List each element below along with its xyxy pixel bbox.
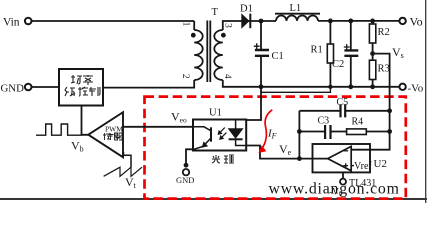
- diode D1 cathode bar: [249, 14, 251, 29]
- phototransistor emitter: [194, 138, 211, 149]
- chinese 控制器 under PWM: [103, 133, 122, 140]
- red dashed feedback box: [145, 97, 406, 199]
- wire L1 to Vo: [318, 20, 399, 22]
- svg-text:C1: C1: [272, 51, 284, 62]
- square wave symbol Vb: [36, 124, 82, 135]
- 功: [71, 75, 82, 84]
- C3 plates: [325, 125, 330, 139]
- svg-text:C5: C5: [337, 97, 349, 108]
- svg-text:R3: R3: [378, 64, 390, 75]
- opto GND wire: [186, 149, 194, 165]
- TL431 U2 box: [313, 144, 371, 172]
- U2 triangle: [328, 146, 352, 170]
- svg-text:C3: C3: [318, 116, 330, 127]
- C5 branch wires: [299, 110, 389, 112]
- C2 plates: [344, 50, 358, 55]
- svg-text:PWM: PWM: [105, 125, 123, 134]
- svg-text:-V0: -V0: [329, 188, 343, 199]
- R4 body: [347, 129, 367, 135]
- svg-text:R2: R2: [378, 27, 390, 38]
- sawtooth symbol Vt: [104, 167, 142, 176]
- svg-text:Vref: Vref: [354, 161, 372, 172]
- phototransistor emitter arrowhead: [202, 142, 207, 147]
- LED cathode lead: [236, 139, 247, 145]
- transformer secondary winding: [214, 30, 223, 80]
- terminal Vin: [25, 18, 32, 25]
- red feedback current arrow IF: [263, 110, 273, 148]
- wire primary bottom to power box: [104, 80, 195, 88]
- transformer phase dots: [191, 33, 196, 38]
- PWM controller triangle: [88, 112, 123, 157]
- opto GND terminal: [183, 169, 189, 175]
- 级: [65, 87, 75, 96]
- phototransistor collector: [193, 127, 211, 131]
- R2 body: [369, 24, 375, 43]
- svg-text:2: 2: [180, 74, 190, 79]
- svg-text:1: 1: [180, 22, 190, 27]
- R3 body: [369, 60, 375, 79]
- R1 body: [327, 44, 333, 63]
- transformer core: [207, 21, 210, 83]
- optocoupler U1 box: [193, 120, 246, 151]
- svg-text:Vin: Vin: [3, 17, 20, 29]
- terminal Vo: [399, 18, 405, 24]
- svg-text:Vo: Vo: [410, 15, 423, 29]
- resistor R2 leads: [372, 21, 374, 60]
- wire primary top corner down: [193, 21, 195, 30]
- C2 polarity plus: [344, 44, 350, 50]
- wire power box bottom to PWM: [82, 106, 89, 135]
- chinese text power stage control (drawn strokes): [65, 75, 100, 96]
- L1 core bar: [275, 13, 320, 15]
- opto light arrows: [218, 128, 226, 140]
- resistor R1 leads: [329, 21, 331, 87]
- U2 anode stub: [342, 172, 344, 178]
- U2 Vref lead: [351, 165, 354, 167]
- bottom border line: [0, 198, 427, 200]
- opto LED triangle: [229, 129, 243, 138]
- svg-text:T: T: [212, 7, 219, 18]
- resistor R3 lead: [372, 80, 374, 87]
- right border line: [425, 0, 427, 203]
- wire Veo: PWM output to optocoupler: [123, 126, 193, 128]
- wire sawtooth to PWM: [124, 152, 132, 167]
- chinese 光耦 optocoupler label: [212, 155, 234, 163]
- terminal -Vo: [399, 84, 405, 90]
- inductor L1: [276, 15, 318, 20]
- svg-text:D1: D1: [240, 4, 253, 15]
- U2 minus input marker: [344, 150, 348, 152]
- phototransistor bar: [210, 127, 212, 141]
- terminal GND: [25, 84, 32, 91]
- C3 branch wires: [299, 131, 389, 133]
- capacitor C1 leads: [260, 21, 262, 87]
- svg-text:R1: R1: [311, 45, 323, 56]
- transformer T primary winding: [194, 30, 203, 80]
- svg-text:-Vo: -Vo: [408, 83, 424, 95]
- svg-text:C2: C2: [332, 59, 344, 70]
- U2 anode terminal: [340, 179, 346, 185]
- wire secondary bottom to -Vo rail: [223, 80, 400, 87]
- svg-text:TL431: TL431: [349, 178, 376, 189]
- compensation left vertical: [298, 111, 300, 159]
- svg-text:GND: GND: [176, 175, 194, 185]
- 制: [89, 87, 100, 96]
- svg-text:L1: L1: [290, 3, 302, 14]
- wire rail to LED anode: [246, 87, 261, 120]
- wire secondary top corner: [223, 21, 242, 30]
- 控: [78, 87, 88, 96]
- capacitor C2 leads: [350, 21, 352, 87]
- wire Vs takeoff down to compensation network: [351, 54, 389, 150]
- U2 plus input marker: [343, 163, 348, 168]
- redundant rail loop: [261, 87, 330, 93]
- svg-text:GND: GND: [1, 82, 25, 94]
- power stage control box: [59, 69, 103, 106]
- wire D1 to L1 junction: [242, 20, 276, 22]
- C1 polarity plus: [254, 43, 260, 49]
- wire Vin to transformer: [32, 20, 195, 22]
- svg-text:U1: U1: [209, 108, 222, 119]
- diode D1 triangle: [242, 14, 249, 27]
- 率: [83, 75, 93, 85]
- svg-text:3: 3: [222, 23, 232, 28]
- C1 plates: [255, 50, 269, 56]
- svg-text:U2: U2: [374, 158, 387, 170]
- C5 plates: [341, 104, 346, 117]
- wire LED cathode to Ve: [246, 146, 328, 159]
- svg-text:R4: R4: [352, 117, 364, 128]
- LED cathode bar: [229, 138, 243, 140]
- wire GND to power box: [32, 86, 59, 88]
- svg-text:4: 4: [222, 74, 232, 79]
- LED anode lead: [235, 120, 237, 128]
